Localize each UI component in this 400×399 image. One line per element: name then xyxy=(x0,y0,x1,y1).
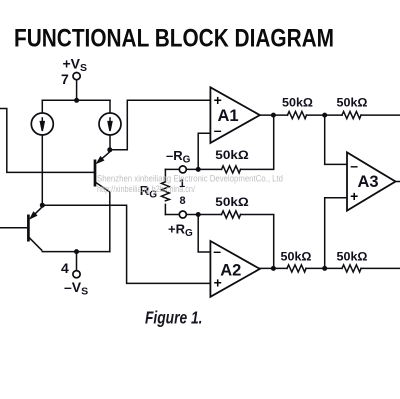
wire: +RG row xyxy=(165,215,273,269)
current source I2 arrow xyxy=(109,117,111,126)
svg-text:http://xinbeiliang.b2b.china.c: http://xinbeiliang.b2b.china.cn/ xyxy=(97,184,195,195)
svg-text:50kΩ: 50kΩ xyxy=(215,150,249,162)
svg-text:8: 8 xyxy=(179,195,185,207)
svg-text:FUNCTIONAL BLOCK DIAGRAM: FUNCTIONAL BLOCK DIAGRAM xyxy=(14,25,334,53)
svg-text:–RG: –RG xyxy=(166,148,191,166)
wire: right current source drop from rail xyxy=(109,100,111,113)
wire: A2 output row xyxy=(260,267,400,269)
node: Q2 emitter junction xyxy=(107,147,112,152)
wire: Q1 base from left edge xyxy=(0,227,28,229)
current source I2 circle xyxy=(99,113,121,135)
resistor 50k R6 (bottom right) xyxy=(342,265,361,272)
svg-text:Shenzhen xinbeiliang Electroni: Shenzhen xinbeiliang Electronic Developm… xyxy=(97,173,283,184)
wire: top supply rail xyxy=(42,99,110,101)
svg-text:–VS: –VS xyxy=(64,279,88,298)
wire: A3 output stub xyxy=(396,181,400,183)
pin 1 terminal circle -RG xyxy=(179,166,186,173)
op-amp A3 xyxy=(347,152,396,210)
wire: right current source to Q2 emitter node xyxy=(109,135,111,150)
svg-text:A1: A1 xyxy=(217,107,238,125)
svg-text:A3: A3 xyxy=(357,173,378,191)
resistor 50k R4 (top right) xyxy=(342,112,361,119)
node: +VS rail junction xyxy=(74,98,79,103)
svg-text:A2: A2 xyxy=(220,262,241,280)
wire: left current source to Q1 emitter node xyxy=(41,135,43,206)
pin 4 terminal circle -VS xyxy=(73,271,80,278)
node: pin 4 junction xyxy=(74,249,79,254)
node: bottom middle (A3 +) xyxy=(322,266,327,271)
wire: A1 inverting input xyxy=(198,133,210,169)
current source I1 circle xyxy=(31,113,53,135)
wire: A1 output row xyxy=(260,114,400,116)
transistor Q2 (upper PNP) xyxy=(95,152,110,192)
svg-text:50kΩ: 50kΩ xyxy=(215,197,249,209)
wire: -RG row xyxy=(165,115,273,169)
node: top middle (A3 -) xyxy=(322,113,327,118)
node: -RG junction xyxy=(196,167,201,172)
svg-text:50kΩ: 50kΩ xyxy=(282,97,313,109)
op-amp A2 xyxy=(210,241,259,297)
wire: bottom node up to A3 + input xyxy=(325,198,347,269)
resistor 50k R2 (A2 feedback) xyxy=(222,211,241,218)
pin 8 terminal circle +RG xyxy=(179,211,186,218)
wire: left input to Q2 base xyxy=(0,109,95,173)
node: +RG junction xyxy=(196,212,201,217)
svg-text:+RG: +RG xyxy=(168,221,193,239)
transistor Q1 (lower PNP) xyxy=(28,207,42,251)
pin 7 terminal circle +VS xyxy=(73,73,80,80)
wire: RG leg xyxy=(164,169,166,214)
wire: left current source drop from rail xyxy=(41,100,43,113)
node: A2 output xyxy=(271,266,276,271)
current source I1 arrow xyxy=(41,117,43,126)
op-amp A1 xyxy=(210,87,259,143)
svg-text:4: 4 xyxy=(61,260,69,276)
svg-text:–: – xyxy=(213,243,221,259)
node: A1 output xyxy=(271,113,276,118)
wire: +VS stub xyxy=(76,80,78,101)
resistor 50k R3 (top left) xyxy=(288,112,307,119)
svg-text:50kΩ: 50kΩ xyxy=(337,251,368,263)
wire: Q2 collector down xyxy=(109,192,111,252)
resistor RG (gain) xyxy=(161,182,169,201)
wire: A2 inverting input xyxy=(198,215,210,253)
wire: Q2 node right then up to A1 + input xyxy=(110,100,211,150)
resistor 50k R1 (A1 feedback) xyxy=(222,166,241,173)
svg-text:7: 7 xyxy=(61,71,69,87)
svg-text:+: + xyxy=(214,92,222,108)
svg-text:50kΩ: 50kΩ xyxy=(337,97,368,109)
wire: bottom rail between collectors xyxy=(42,251,110,253)
wire: pin 4 stub xyxy=(76,252,78,271)
node: Q1 emitter junction xyxy=(40,203,45,208)
wire: top node down to A3 - input xyxy=(325,115,347,164)
resistor 50k R5 (bottom left) xyxy=(287,265,306,272)
svg-text:50kΩ: 50kΩ xyxy=(281,251,312,263)
svg-text:–: – xyxy=(350,157,358,173)
svg-text:Figure 1.: Figure 1. xyxy=(145,307,203,327)
wire: Q1 node right then down to A2 + input xyxy=(42,205,210,283)
